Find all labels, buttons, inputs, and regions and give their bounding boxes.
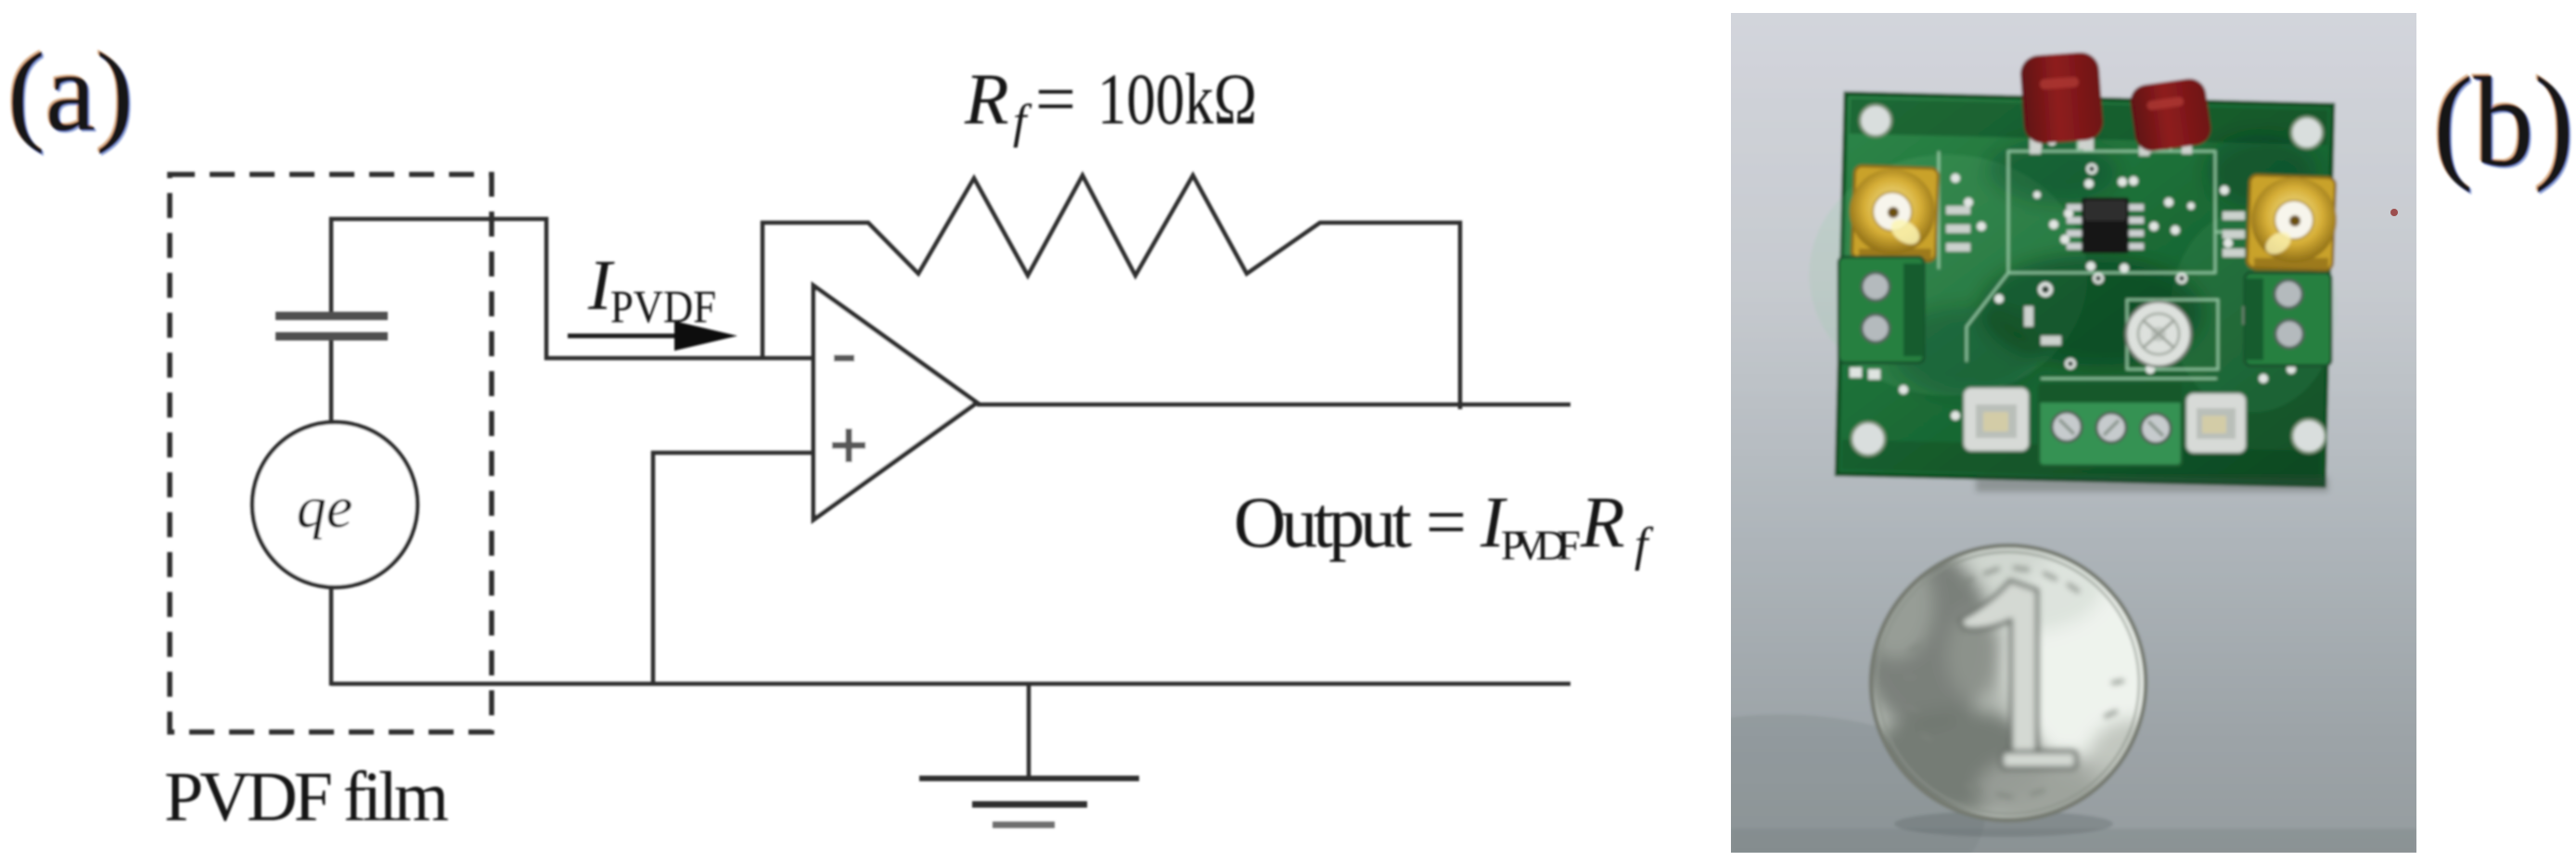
svg-text:PVDF film: PVDF film bbox=[164, 758, 449, 836]
svg-text:PVDF: PVDF bbox=[1501, 521, 1581, 569]
svg-text:PVDF: PVDF bbox=[610, 280, 716, 332]
svg-text:(b): (b) bbox=[2433, 51, 2574, 194]
svg-text:Output: Output bbox=[1234, 482, 1412, 562]
svg-text:(a): (a) bbox=[7, 30, 134, 155]
svg-text:qe: qe bbox=[297, 474, 352, 540]
svg-text:f: f bbox=[1013, 96, 1032, 148]
svg-text:=: = bbox=[1426, 482, 1467, 562]
svg-text:=: = bbox=[1035, 58, 1076, 139]
svg-text:f: f bbox=[1634, 519, 1654, 572]
svg-text:R: R bbox=[964, 58, 1009, 139]
svg-text:R: R bbox=[1580, 482, 1625, 562]
svg-text:100kΩ: 100kΩ bbox=[1097, 58, 1257, 139]
